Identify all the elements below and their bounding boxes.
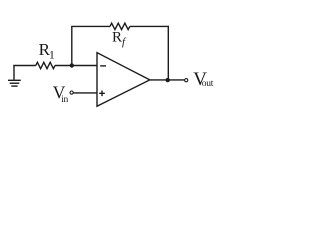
terminal Vin xyxy=(70,91,73,94)
wire ground to R1 xyxy=(13,65,36,67)
resistor R1 xyxy=(36,62,55,68)
wire feedback right vertical xyxy=(167,26,169,80)
wire R1 to inverting input xyxy=(55,65,97,67)
wire top left xyxy=(71,25,110,27)
svg-text:f: f xyxy=(122,36,127,48)
ground xyxy=(8,66,21,87)
svg-text:out: out xyxy=(202,79,214,89)
op-amp plus pin xyxy=(99,91,105,97)
wire output xyxy=(150,79,185,81)
svg-text:1: 1 xyxy=(49,48,55,62)
wire feedback left vertical xyxy=(71,26,73,65)
node output junction xyxy=(166,78,170,82)
node inverting input junction xyxy=(70,63,74,67)
svg-text:R: R xyxy=(112,30,122,46)
wire top right xyxy=(130,25,169,27)
op-amp U1 xyxy=(97,53,150,107)
svg-text:in: in xyxy=(61,95,68,105)
op-amp minus pin xyxy=(100,65,106,67)
wire Vin to non-inverting input xyxy=(74,92,98,94)
terminal Vout xyxy=(185,79,188,82)
resistor Rf xyxy=(110,23,130,29)
